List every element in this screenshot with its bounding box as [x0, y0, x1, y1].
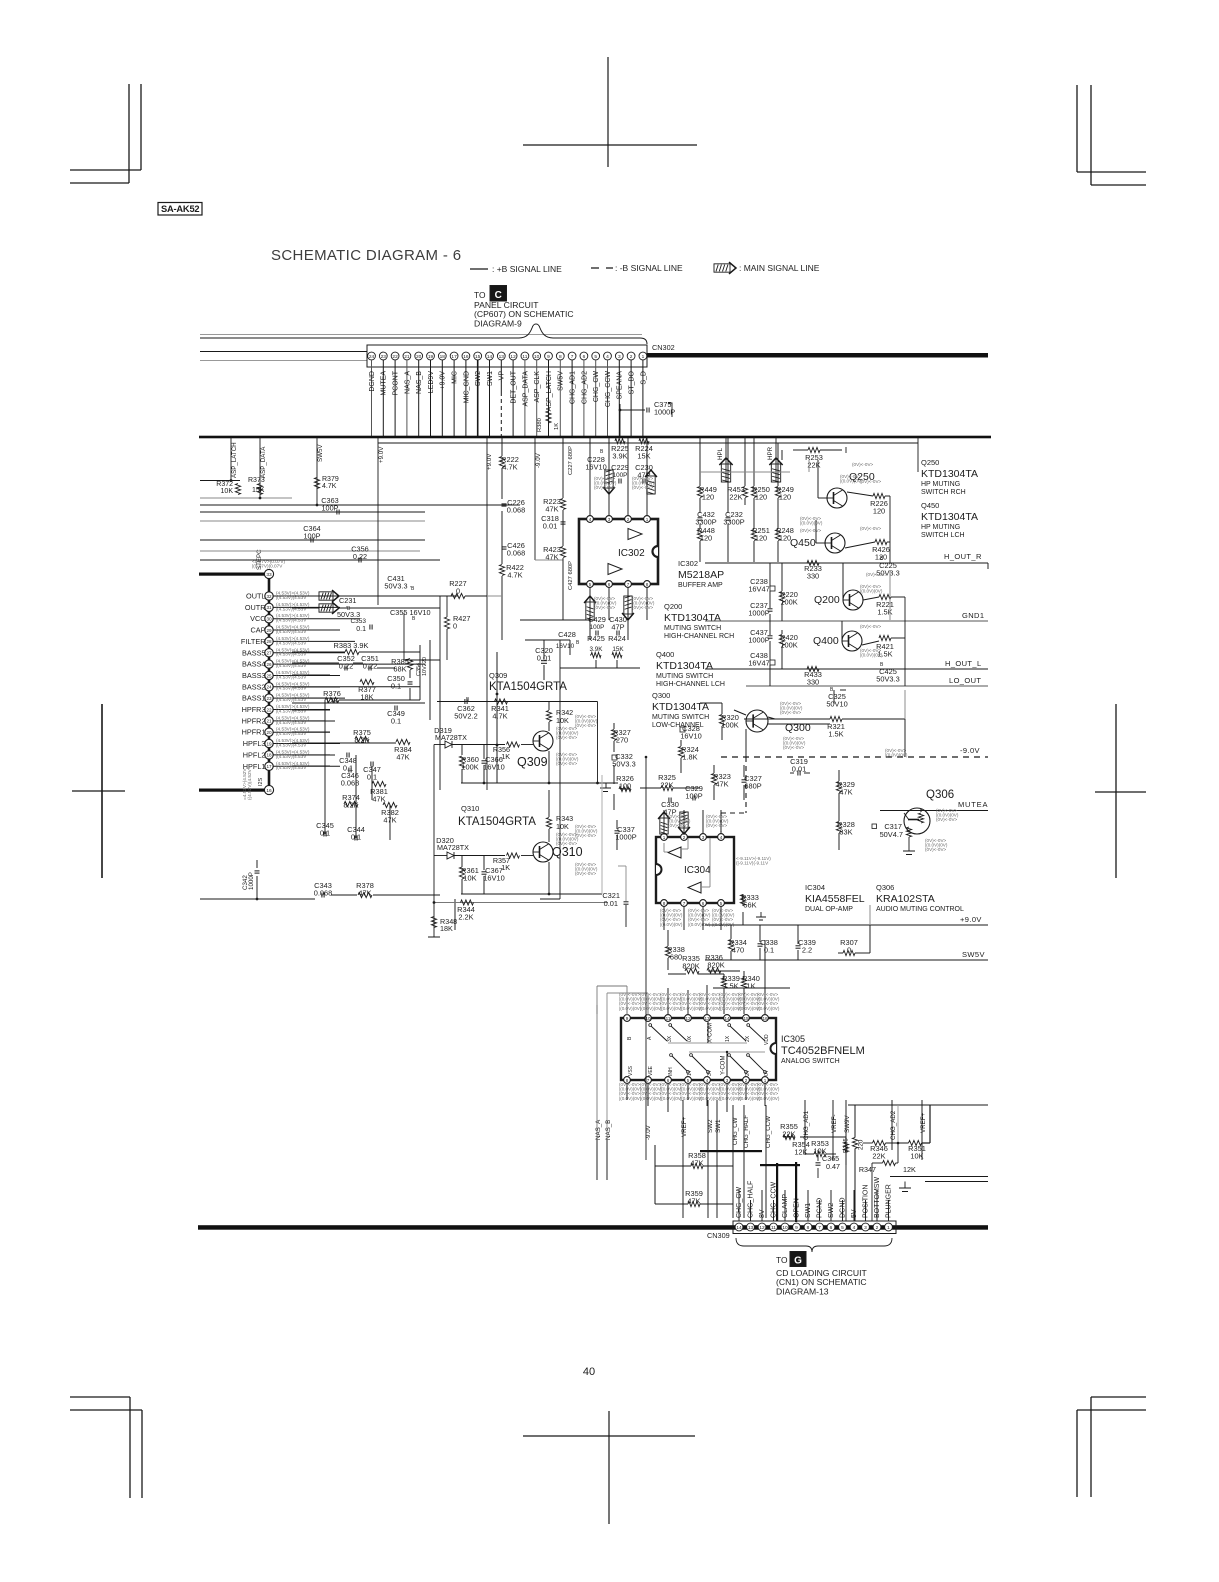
svg-text:TC4052BFNELM: TC4052BFNELM [781, 1045, 865, 1057]
svg-text:HPFR3: HPFR3 [242, 705, 266, 714]
svg-text:((4.52V)(4.52V: ((4.52V)(4.52V [247, 768, 252, 800]
svg-text:(0V)<-0V>: (0V)<-0V> [575, 723, 597, 728]
svg-text:0.1: 0.1 [391, 717, 401, 726]
svg-text:CHG_AD1: CHG_AD1 [803, 1110, 810, 1140]
svg-text:100P: 100P [321, 504, 338, 513]
svg-text:330: 330 [807, 678, 819, 687]
svg-text:CHG_CW: CHG_CW [736, 1186, 743, 1218]
svg-text:Q309: Q309 [489, 671, 507, 680]
svg-text:16: 16 [762, 1016, 768, 1021]
svg-text:IC302: IC302 [618, 548, 645, 559]
svg-text:CHG_AD2: CHG_AD2 [890, 1110, 897, 1140]
svg-text:20: 20 [416, 354, 422, 360]
svg-text:17: 17 [266, 764, 272, 769]
svg-text:32: 32 [266, 594, 272, 599]
svg-text:(0V)<-0V>: (0V)<-0V> [936, 817, 958, 822]
svg-text:CN309: CN309 [707, 1231, 730, 1240]
svg-text:G: G [794, 1256, 802, 1267]
svg-text:4.7K: 4.7K [502, 463, 517, 472]
svg-text:BASS1: BASS1 [242, 694, 266, 703]
svg-text:HPR: HPR [767, 446, 774, 460]
svg-text:LO_OUT: LO_OUT [949, 676, 981, 685]
svg-text:2: 2 [630, 354, 633, 360]
svg-text:0.01: 0.01 [604, 899, 618, 908]
svg-text:KTD1304TA: KTD1304TA [656, 660, 713, 672]
svg-text:10: 10 [534, 354, 540, 360]
svg-text:C428: C428 [558, 630, 576, 639]
svg-text:0.1: 0.1 [391, 682, 401, 691]
svg-text:4: 4 [720, 835, 723, 840]
svg-text:6: 6 [583, 354, 586, 360]
svg-text:3: 3 [618, 354, 621, 360]
svg-text:50V3.3: 50V3.3 [876, 675, 899, 684]
svg-text:: +B SIGNAL LINE: : +B SIGNAL LINE [492, 264, 562, 274]
svg-text:C231: C231 [339, 596, 356, 605]
svg-text:(0V)<-0V>: (0V)<-0V> [925, 847, 947, 852]
svg-text:4.7K: 4.7K [322, 483, 337, 490]
svg-text:SW5V: SW5V [962, 950, 985, 959]
svg-text:0Y: 0Y [764, 1069, 770, 1076]
svg-text:21: 21 [404, 354, 410, 360]
svg-text:NAS_A: NAS_A [404, 371, 411, 394]
svg-text:22: 22 [266, 707, 272, 712]
svg-text:1: 1 [642, 354, 645, 360]
svg-text:4: 4 [853, 1225, 856, 1231]
svg-text:DGND: DGND [369, 371, 376, 392]
svg-text:|(4.53V)(4.53V: |(4.53V)(4.53V [276, 640, 307, 645]
svg-text:BOTTOMSW: BOTTOMSW [874, 1177, 881, 1218]
svg-text:47K: 47K [715, 780, 728, 789]
svg-text:HPFL2: HPFL2 [243, 750, 266, 759]
svg-text:6: 6 [702, 901, 705, 906]
svg-text:(0V)<-0V>: (0V)<-0V> [706, 823, 728, 828]
svg-text:SWITCH RCH: SWITCH RCH [921, 489, 966, 496]
svg-text:SCHEMATIC DIAGRAM - 6: SCHEMATIC DIAGRAM - 6 [271, 247, 461, 264]
svg-text:15K: 15K [252, 487, 265, 494]
svg-text:3X: 3X [667, 1035, 673, 1042]
svg-text:VREF+: VREF+ [681, 1116, 688, 1137]
svg-text:1.5K: 1.5K [723, 982, 738, 991]
svg-text:M5218AP: M5218AP [678, 569, 724, 581]
svg-text:R373: R373 [248, 477, 265, 484]
svg-text:CHG_CW: CHG_CW [593, 371, 600, 403]
svg-text:24: 24 [266, 685, 272, 690]
svg-text:BASS2: BASS2 [242, 682, 266, 691]
svg-text:ASP_CLK: ASP_CLK [534, 371, 541, 403]
svg-text:4: 4 [589, 517, 592, 522]
svg-text:VREF-: VREF- [831, 1114, 838, 1133]
svg-text:100P: 100P [685, 792, 702, 801]
svg-text:-9.0V: -9.0V [535, 452, 542, 468]
svg-text:0.22: 0.22 [339, 662, 353, 671]
svg-text:SWITCH LCH: SWITCH LCH [921, 532, 965, 539]
svg-text:8: 8 [807, 1225, 810, 1231]
svg-text:7: 7 [683, 901, 686, 906]
svg-text:+9.0V: +9.0V [486, 453, 493, 470]
svg-text:MUTING SWITCH: MUTING SWITCH [664, 625, 721, 632]
svg-text:'B: 'B [410, 586, 415, 592]
svg-text:10K: 10K [556, 716, 569, 725]
svg-text:Q310: Q310 [552, 845, 583, 859]
svg-text:220: 220 [858, 1139, 865, 1150]
svg-text:-VP: -VP [499, 371, 506, 383]
svg-text:29: 29 [266, 628, 272, 633]
svg-text:1Y: 1Y [687, 1069, 693, 1076]
svg-text:PGND: PGND [817, 1198, 824, 1218]
svg-text:0: 0 [453, 622, 457, 631]
svg-text:120: 120 [755, 493, 767, 502]
svg-text:Q450: Q450 [790, 537, 816, 549]
svg-text:50V3.3: 50V3.3 [612, 760, 635, 769]
svg-text:1K: 1K [554, 423, 560, 430]
svg-text:Y-COM: Y-COM [721, 1056, 727, 1075]
svg-text:20: 20 [266, 730, 272, 735]
svg-text:INH: INH [668, 1067, 674, 1076]
svg-text:|(4.53V)(4.53V: |(4.53V)(4.53V [276, 618, 307, 623]
svg-text:1X: 1X [725, 1035, 731, 1042]
svg-text:11: 11 [522, 354, 527, 360]
svg-text:0.01: 0.01 [792, 765, 806, 774]
svg-text:68K: 68K [393, 665, 406, 674]
svg-text:R380: R380 [537, 418, 543, 432]
svg-text:330: 330 [807, 572, 819, 581]
svg-text:47K: 47K [372, 795, 385, 804]
svg-text:(0V)<-0V>: (0V)<-0V> [594, 605, 616, 610]
svg-text:|(0.0V)(0V): |(0.0V)(0V) [688, 922, 711, 927]
svg-text:R383 3.9K: R383 3.9K [334, 641, 369, 650]
svg-text:CHG_CCW: CHG_CCW [605, 371, 612, 408]
svg-text:1: 1 [887, 1225, 890, 1231]
svg-text:HPFL3: HPFL3 [243, 739, 266, 748]
svg-text:0.22: 0.22 [363, 662, 377, 671]
svg-text:HPL: HPL [717, 447, 724, 460]
svg-text:MIC: MIC [452, 371, 459, 384]
svg-text:7: 7 [571, 354, 574, 360]
svg-text:(0V)<-0V>: (0V)<-0V> [860, 526, 882, 531]
svg-text:9: 9 [795, 1225, 798, 1231]
svg-text:SW2: SW2 [828, 1203, 835, 1218]
svg-text:47P: 47P [611, 623, 624, 632]
svg-text:ASP_DATA: ASP_DATA [260, 446, 267, 478]
svg-text:LED9V: LED9V [428, 371, 435, 394]
svg-text:ASP_LATCH: ASP_LATCH [546, 371, 553, 411]
svg-text:DIAGRAM-13: DIAGRAM-13 [776, 1286, 829, 1296]
svg-text:TO: TO [474, 290, 486, 300]
svg-text:470: 470 [732, 946, 744, 955]
svg-text:MUTING SWITCH: MUTING SWITCH [652, 714, 709, 721]
svg-text:22: 22 [392, 354, 398, 360]
svg-text:Q450: Q450 [921, 501, 939, 510]
svg-text:KTA1504GRTA: KTA1504GRTA [489, 681, 567, 693]
svg-text:|(0.0V)(0V): |(0.0V)(0V) [660, 922, 683, 927]
svg-text:40: 40 [583, 1366, 595, 1378]
svg-text:3: 3 [702, 835, 705, 840]
svg-text:CAP: CAP [250, 626, 265, 635]
svg-text:7: 7 [627, 582, 630, 587]
svg-text:CLAMP: CLAMP [782, 1194, 789, 1218]
svg-text:6: 6 [608, 582, 611, 587]
svg-text:21: 21 [266, 719, 272, 724]
svg-text:12: 12 [759, 1225, 765, 1231]
svg-text:R372: R372 [216, 481, 233, 488]
svg-text:IC302: IC302 [678, 559, 698, 568]
svg-text:0.01: 0.01 [543, 522, 557, 531]
svg-text:C429: C429 [588, 615, 606, 624]
svg-text:1.5K: 1.5K [828, 730, 843, 739]
svg-text:|(4.53V)(4.53V: |(4.53V)(4.53V [276, 720, 307, 725]
svg-text:SW1: SW1 [715, 1119, 722, 1133]
svg-text:0: 0 [456, 587, 460, 596]
svg-text:8V: 8V [759, 1209, 766, 1218]
svg-text:Q310: Q310 [461, 804, 479, 813]
svg-text:5V: 5V [851, 1209, 858, 1218]
svg-text:MUTING SWITCH: MUTING SWITCH [656, 673, 713, 680]
svg-text:15K: 15K [612, 646, 624, 653]
svg-text:SW1: SW1 [487, 371, 494, 386]
svg-text:VEE: VEE [648, 1065, 654, 1076]
svg-text:KTD1304TA: KTD1304TA [664, 612, 721, 624]
svg-text:120: 120 [755, 534, 767, 543]
svg-text:|(4.53V)(4.53V: |(4.53V)(4.53V [276, 606, 307, 611]
svg-text:11: 11 [771, 1225, 776, 1231]
svg-text:|(0.0V)(0V): |(0.0V)(0V) [860, 589, 883, 594]
svg-text:HIGH-CHANNEL RCH: HIGH-CHANNEL RCH [664, 633, 734, 640]
svg-text:16V10: 16V10 [680, 732, 701, 741]
svg-text:15K: 15K [637, 452, 650, 461]
svg-text:MIC_GND: MIC_GND [463, 371, 470, 403]
svg-text:14: 14 [724, 1016, 730, 1021]
svg-text:SW9V: SW9V [844, 1115, 851, 1133]
svg-text:DIAGRAM-9: DIAGRAM-9 [474, 318, 522, 328]
svg-text:18: 18 [440, 354, 446, 360]
svg-text:DGND: DGND [840, 1197, 847, 1218]
svg-text:10K: 10K [910, 1152, 923, 1161]
svg-text:16V10: 16V10 [483, 763, 504, 772]
svg-text:SW5V: SW5V [317, 444, 324, 462]
svg-text:+9.0V: +9.0V [440, 371, 447, 390]
svg-text:14: 14 [487, 354, 493, 360]
svg-text:FILTER: FILTER [241, 637, 266, 646]
svg-text:1000P: 1000P [748, 609, 769, 618]
svg-text:CN302: CN302 [652, 343, 675, 352]
svg-text:680: 680 [670, 953, 682, 962]
svg-text:13: 13 [499, 354, 505, 360]
svg-text:16V10: 16V10 [483, 874, 504, 883]
svg-text:PCONT: PCONT [393, 370, 400, 395]
svg-text:PLUNGER: PLUNGER [886, 1184, 893, 1218]
svg-text:1K: 1K [746, 982, 755, 991]
svg-text:1.8K: 1.8K [682, 753, 697, 762]
svg-text:|(0.0V)(0V): |(0.0V)(0V) [757, 1006, 780, 1011]
svg-text:14: 14 [736, 1225, 742, 1231]
svg-text:50V3.3: 50V3.3 [384, 582, 407, 591]
svg-text:OUTL: OUTL [246, 592, 265, 601]
svg-text:120: 120 [700, 534, 712, 543]
svg-text:-9.0V: -9.0V [960, 746, 980, 755]
svg-text:12K: 12K [794, 1148, 807, 1157]
svg-text:HIGH-CHANNEL LCH: HIGH-CHANNEL LCH [656, 681, 725, 688]
svg-text:0X: 0X [687, 1035, 693, 1042]
svg-text:8: 8 [646, 582, 649, 587]
svg-text:C353: C353 [350, 618, 366, 625]
svg-text:28: 28 [266, 639, 272, 644]
svg-text:820K: 820K [707, 961, 724, 970]
svg-text:(0V)<-0V>: (0V)<-0V> [668, 823, 690, 828]
svg-text:9: 9 [626, 1016, 629, 1021]
svg-text:(0V)<-0V>: (0V)<-0V> [860, 624, 882, 629]
svg-text:Q300: Q300 [652, 691, 670, 700]
svg-text:BASS5: BASS5 [242, 648, 266, 657]
svg-text:(0V)<-0V>: (0V)<-0V> [800, 528, 822, 533]
svg-text:VSS: VSS [628, 1065, 634, 1076]
svg-text:AUDIO MUTING CONTROL: AUDIO MUTING CONTROL [876, 906, 964, 913]
svg-text:Q200: Q200 [814, 594, 840, 606]
svg-text:6: 6 [830, 1225, 833, 1231]
svg-text:KTD1304TA: KTD1304TA [921, 468, 978, 480]
svg-text:23: 23 [266, 696, 272, 701]
svg-text:(0V)<-0V>: (0V)<-0V> [575, 833, 597, 838]
svg-text:Q200: Q200 [664, 602, 682, 611]
svg-text:22K: 22K [872, 1152, 885, 1161]
svg-text:C227 680P: C227 680P [568, 446, 574, 475]
svg-text:8: 8 [559, 354, 562, 360]
svg-text:Q400: Q400 [813, 635, 839, 647]
svg-text:|(4.53V)(4.53V: |(4.53V)(4.53V [276, 708, 307, 713]
svg-text:0.068: 0.068 [507, 506, 526, 515]
svg-text:1: 1 [646, 517, 649, 522]
svg-text:R424: R424 [608, 634, 626, 643]
svg-text:I2S: I2S [258, 777, 264, 786]
svg-text:120: 120 [702, 493, 714, 502]
svg-text:3: 3 [864, 1225, 867, 1231]
svg-text:47K: 47K [396, 753, 409, 762]
svg-text:CHG_CCW: CHG_CCW [771, 1181, 778, 1218]
svg-text:9: 9 [547, 354, 550, 360]
svg-text:4.7K: 4.7K [492, 712, 507, 721]
svg-text:16V10: 16V10 [585, 463, 606, 472]
svg-text:16: 16 [463, 354, 469, 360]
svg-text:3300P: 3300P [723, 518, 744, 527]
svg-text:OUTR: OUTR [245, 603, 266, 612]
svg-text:IC304: IC304 [805, 883, 825, 892]
svg-text:18: 18 [266, 753, 272, 758]
svg-text:2Y: 2Y [745, 1069, 751, 1076]
svg-text:13: 13 [748, 1225, 754, 1231]
svg-text:MUTEA: MUTEA [958, 800, 988, 809]
svg-text:C355 16V10: C355 16V10 [390, 608, 431, 617]
svg-text:(0V)<-0V>: (0V)<-0V> [556, 735, 578, 740]
svg-text:IC305: IC305 [781, 1034, 805, 1044]
svg-text:18K: 18K [440, 924, 453, 933]
svg-text:C427 680P: C427 680P [568, 561, 574, 590]
svg-text:0.068: 0.068 [507, 549, 526, 558]
svg-text:BUFFER AMP: BUFFER AMP [678, 582, 723, 589]
svg-text:17: 17 [451, 354, 457, 360]
svg-text:|(0.07V)(0.07V: |(0.07V)(0.07V [252, 563, 283, 568]
svg-text:0.47: 0.47 [826, 1162, 840, 1171]
svg-text:Q306: Q306 [876, 883, 894, 892]
svg-text:100P: 100P [590, 624, 605, 631]
svg-text:12K: 12K [903, 1165, 916, 1174]
svg-text:VREF+: VREF+ [920, 1112, 927, 1133]
svg-text:Q309: Q309 [517, 755, 548, 769]
svg-text:2X: 2X [745, 1035, 751, 1042]
svg-text:27: 27 [266, 651, 272, 656]
svg-text:5: 5 [841, 1225, 844, 1231]
svg-text:NAS_A: NAS_A [595, 1119, 602, 1140]
svg-text:S_D: S_D [640, 371, 647, 385]
svg-text:3.9K: 3.9K [612, 452, 627, 461]
svg-text:HP MUTING: HP MUTING [921, 481, 960, 488]
svg-text:IC304: IC304 [684, 865, 711, 876]
svg-text:50V2.2: 50V2.2 [454, 712, 477, 721]
svg-text:: -B SIGNAL LINE: : -B SIGNAL LINE [615, 263, 683, 273]
svg-text:TO: TO [776, 1255, 788, 1265]
svg-text:25: 25 [266, 673, 272, 678]
svg-text:VDD: VDD [764, 1034, 770, 1045]
svg-text:100P: 100P [303, 532, 320, 541]
svg-text:|(0.0V)(0V): |(0.0V)(0V) [885, 753, 908, 758]
svg-text:(0V)<-0V>: (0V)<-0V> [780, 710, 802, 715]
svg-text:Q400: Q400 [656, 650, 674, 659]
svg-text:OPEN: OPEN [794, 1198, 801, 1218]
svg-text:1000P: 1000P [748, 636, 769, 645]
svg-text:H_OUT_R: H_OUT_R [944, 552, 982, 561]
svg-text:HP MUTING: HP MUTING [921, 524, 960, 531]
svg-text:VCC: VCC [250, 614, 265, 623]
svg-text:33: 33 [266, 572, 272, 578]
svg-text:(0V)<-0V>: (0V)<-0V> [556, 761, 578, 766]
svg-text:ANALOG SWITCH: ANALOG SWITCH [781, 1058, 840, 1065]
svg-text:10: 10 [782, 1225, 788, 1231]
svg-text:3Y: 3Y [707, 1069, 713, 1076]
svg-text:680P: 680P [744, 782, 761, 791]
svg-text:MA728TX: MA728TX [437, 843, 469, 852]
svg-text:47K: 47K [545, 505, 558, 514]
svg-text:1: 1 [663, 835, 666, 840]
svg-text:GND1: GND1 [962, 611, 984, 620]
svg-text:2: 2 [876, 1225, 879, 1231]
svg-text:0.068: 0.068 [314, 889, 333, 898]
svg-text:15: 15 [743, 1016, 749, 1021]
svg-text:4.7K: 4.7K [507, 571, 522, 580]
svg-text:15: 15 [475, 354, 481, 360]
svg-text:: MAIN SIGNAL LINE: : MAIN SIGNAL LINE [739, 263, 820, 273]
svg-text:24: 24 [369, 354, 375, 360]
svg-text:26: 26 [266, 662, 272, 667]
svg-text:16V47: 16V47 [748, 585, 769, 594]
svg-text:POSITION: POSITION [863, 1185, 870, 1218]
svg-text:22K: 22K [729, 493, 742, 502]
svg-text:SW1: SW1 [805, 1203, 812, 1218]
svg-text:0.1: 0.1 [356, 626, 366, 633]
svg-text:KTA1504GRTA: KTA1504GRTA [458, 816, 536, 828]
svg-text:(0V)<-0V>: (0V)<-0V> [575, 871, 597, 876]
svg-text:5: 5 [594, 354, 597, 360]
svg-text:MUTEA: MUTEA [381, 371, 388, 396]
svg-text:BASS4: BASS4 [242, 660, 266, 669]
svg-text:19: 19 [428, 354, 434, 360]
svg-text:8: 8 [663, 901, 666, 906]
svg-text:2.2: 2.2 [802, 946, 812, 955]
svg-text:ST_DO: ST_DO [629, 370, 636, 394]
svg-text:SW2: SW2 [475, 371, 482, 386]
svg-text:13: 13 [704, 1016, 710, 1021]
svg-text:50V10: 50V10 [826, 700, 847, 709]
svg-text:R347: R347 [859, 1165, 876, 1174]
svg-text:31: 31 [266, 605, 272, 610]
svg-text:+9.0V: +9.0V [960, 915, 982, 924]
